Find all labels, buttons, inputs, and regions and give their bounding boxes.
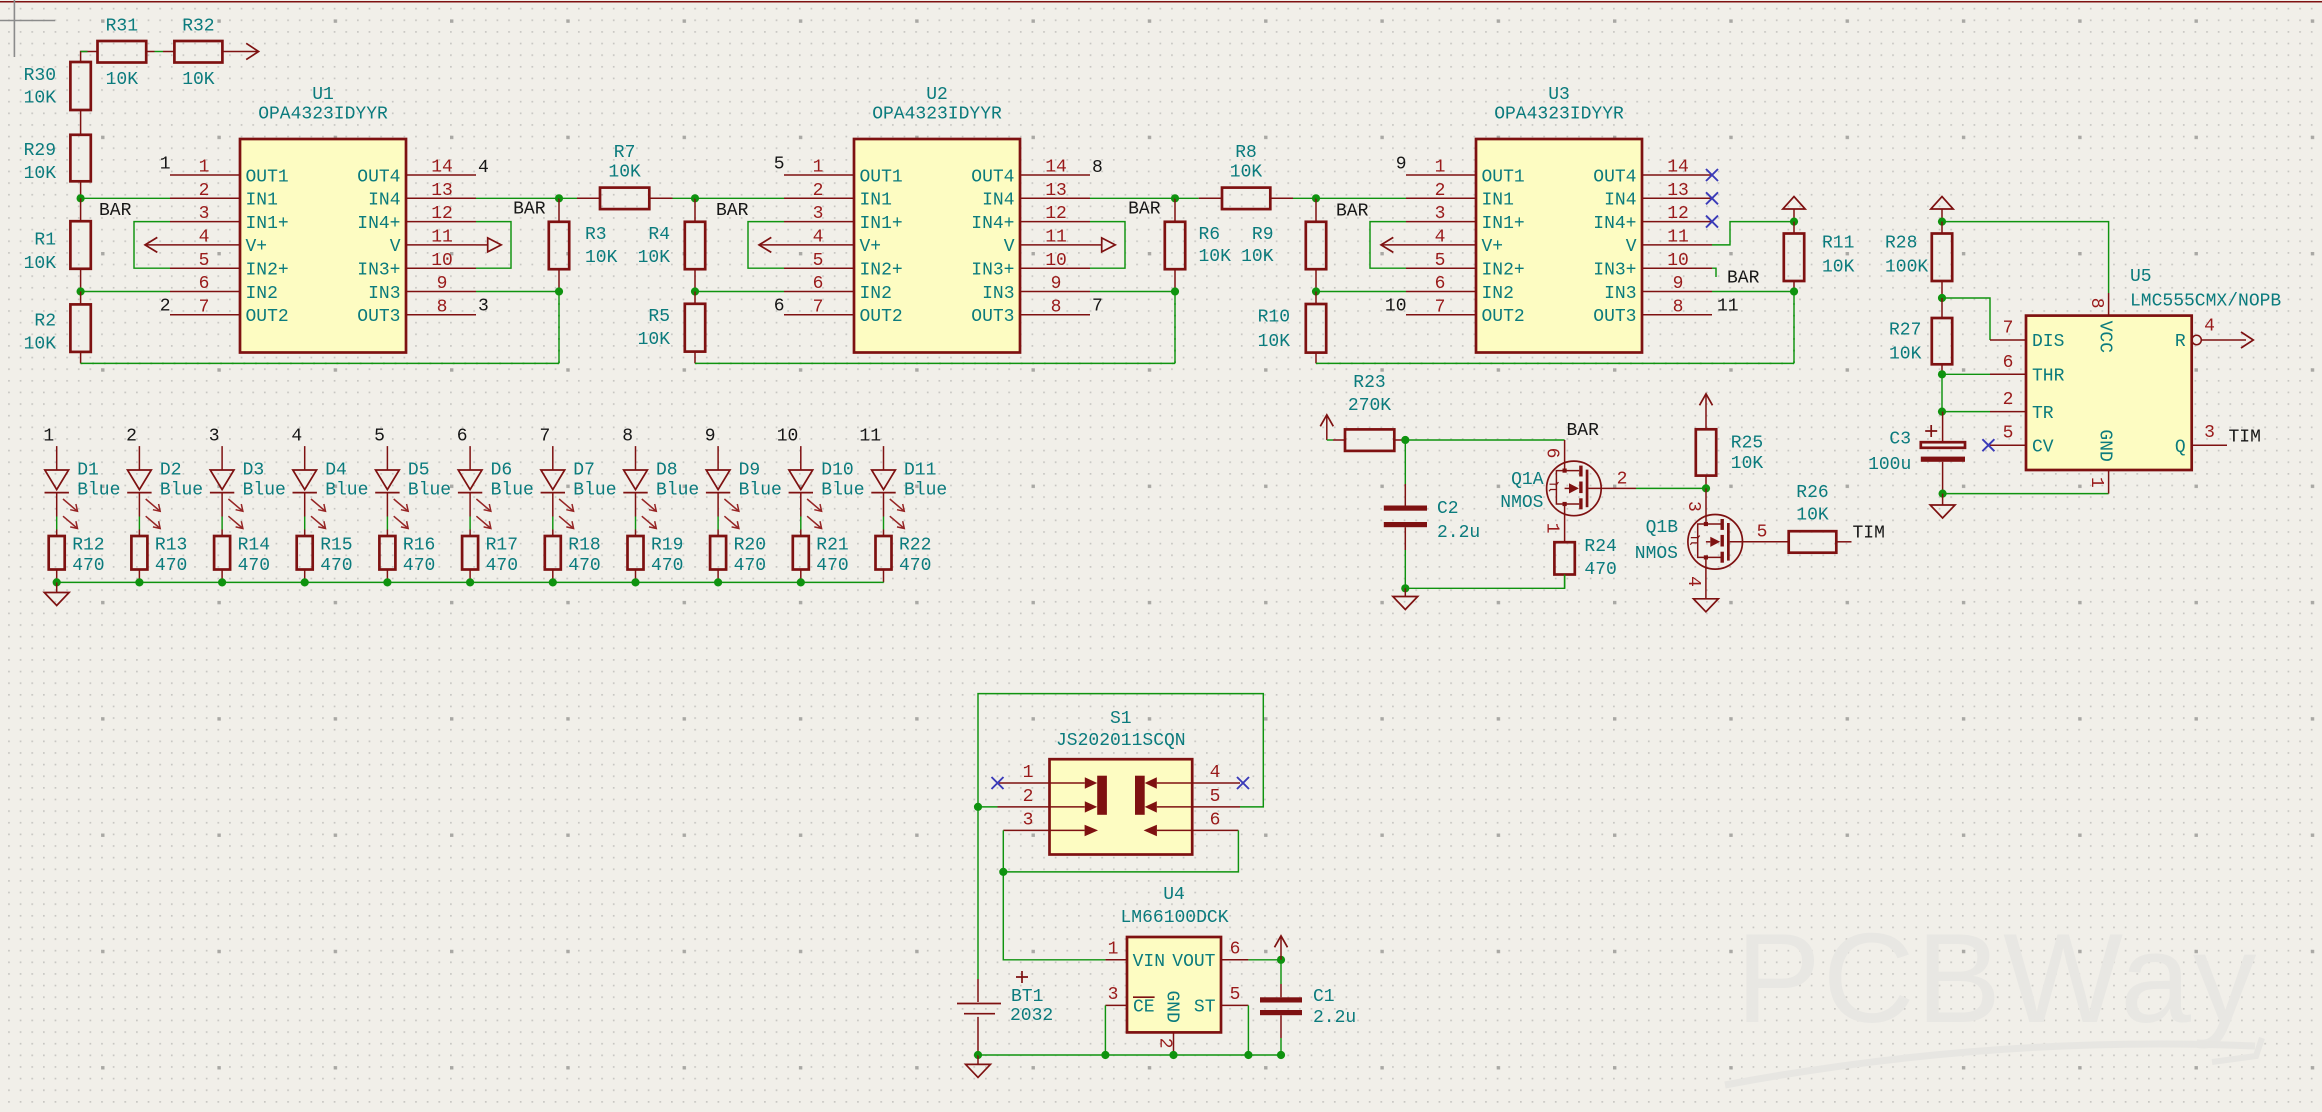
svg-text:5: 5: [1230, 985, 1241, 1005]
svg-text:12: 12: [431, 204, 453, 224]
svg-text:470: 470: [734, 556, 766, 576]
svg-text:R4: R4: [648, 225, 670, 245]
svg-text:11: 11: [859, 427, 881, 447]
svg-text:OUT3: OUT3: [1593, 307, 1636, 327]
svg-text:470: 470: [486, 556, 518, 576]
svg-text:6: 6: [1542, 448, 1562, 459]
svg-text:10K: 10K: [1199, 247, 1232, 267]
svg-text:R22: R22: [899, 535, 931, 555]
led D7: [541, 460, 617, 528]
junction: [1171, 194, 1179, 202]
junction: [797, 578, 805, 586]
battery BT1: [957, 807, 1053, 1055]
svg-text:10K: 10K: [1241, 247, 1274, 267]
wire: [800, 446, 802, 470]
svg-text:13: 13: [1667, 181, 1689, 201]
svg-text:D7: D7: [573, 460, 595, 480]
svg-text:10K: 10K: [638, 248, 671, 268]
svg-text:IN1+: IN1+: [1482, 214, 1525, 234]
junction: [1938, 294, 1946, 302]
wire: [1636, 487, 1706, 489]
wire: [469, 517, 471, 530]
power arrow V+: [759, 244, 784, 246]
svg-text:3: 3: [1023, 810, 1034, 830]
power arrow V: [1090, 244, 1102, 246]
svg-text:R20: R20: [734, 535, 766, 555]
ic U4: [1105, 885, 1248, 1055]
svg-text:BAR: BAR: [1727, 269, 1760, 289]
svg-text:1: 1: [1108, 940, 1119, 960]
svg-text:IN1: IN1: [246, 191, 278, 211]
wire: [476, 291, 559, 293]
svg-text:D9: D9: [739, 460, 761, 480]
wire: [883, 446, 885, 470]
svg-text:R6: R6: [1199, 225, 1221, 245]
svg-text:7: 7: [2003, 319, 2014, 339]
svg-text:10: 10: [1385, 296, 1407, 316]
svg-text:3: 3: [478, 296, 489, 316]
resistor R3: [549, 198, 618, 291]
svg-text:VOUT: VOUT: [1172, 952, 1215, 972]
svg-text:10K: 10K: [24, 164, 57, 184]
op-amp U2: [784, 85, 1090, 353]
svg-text:1: 1: [813, 158, 824, 178]
led D4: [293, 460, 369, 528]
resistor R17: [462, 530, 518, 583]
junction: [1702, 484, 1710, 492]
junction: [1277, 1051, 1285, 1059]
junction: [549, 578, 557, 586]
svg-text:S1: S1: [1110, 709, 1132, 729]
led D1: [45, 460, 121, 528]
resistor R15: [297, 530, 353, 583]
led D9: [706, 460, 782, 528]
junction: [1939, 490, 1947, 498]
svg-text:7: 7: [1435, 297, 1446, 317]
svg-text:V+: V+: [860, 237, 882, 257]
svg-text:8: 8: [437, 297, 448, 317]
svg-text:OPA4323IDYYR: OPA4323IDYYR: [1494, 105, 1624, 125]
svg-text:270K: 270K: [1348, 396, 1391, 416]
svg-text:8: 8: [1051, 297, 1062, 317]
wire DIS: [1942, 298, 1990, 340]
no-connect pin 13: [1706, 192, 1718, 204]
svg-text:OUT2: OUT2: [1482, 307, 1525, 327]
switch S1: [998, 709, 1241, 855]
svg-text:13: 13: [431, 181, 453, 201]
led D3: [210, 460, 286, 528]
svg-text:THR: THR: [2032, 367, 2065, 387]
svg-text:13: 13: [1045, 181, 1067, 201]
svg-text:VCC: VCC: [2095, 321, 2115, 354]
junction: [1401, 436, 1409, 444]
svg-text:4: 4: [1210, 763, 1221, 783]
svg-text:Q1B: Q1B: [1646, 518, 1679, 538]
svg-text:8: 8: [2086, 298, 2106, 309]
junction: [1277, 956, 1285, 964]
svg-text:3: 3: [1435, 204, 1446, 224]
svg-text:470: 470: [816, 556, 848, 576]
wire: [1247, 1005, 1249, 1055]
svg-text:2: 2: [813, 181, 824, 201]
resistor R29: [24, 135, 91, 199]
svg-text:IN3+: IN3+: [357, 261, 400, 281]
svg-text:LM66100DCK: LM66100DCK: [1120, 908, 1228, 928]
svg-text:R8: R8: [1235, 143, 1257, 163]
svg-text:JS202011SCQN: JS202011SCQN: [1056, 731, 1186, 751]
svg-text:R19: R19: [651, 535, 683, 555]
svg-text:100u: 100u: [1868, 455, 1911, 475]
svg-text:IN4: IN4: [368, 191, 400, 211]
junction: [77, 287, 85, 295]
resistor R11: [1784, 222, 1855, 292]
svg-text:ST: ST: [1194, 998, 1216, 1018]
svg-text:7: 7: [1092, 296, 1103, 316]
svg-text:11: 11: [431, 228, 453, 248]
svg-text:R14: R14: [238, 535, 270, 555]
junction: [1401, 584, 1409, 592]
led D8: [623, 460, 699, 528]
junction: [691, 194, 699, 202]
svg-text:D1: D1: [77, 460, 99, 480]
svg-text:2.2u: 2.2u: [1313, 1008, 1356, 1028]
junction: [53, 578, 61, 586]
svg-text:470: 470: [568, 556, 600, 576]
svg-text:470: 470: [72, 556, 104, 576]
svg-text:U5: U5: [2130, 267, 2152, 287]
svg-text:10K: 10K: [1258, 332, 1291, 352]
svg-text:IN1: IN1: [860, 191, 892, 211]
svg-text:Blue: Blue: [77, 481, 120, 501]
junction: [1790, 287, 1798, 295]
svg-text:R29: R29: [24, 141, 56, 161]
resistor R2: [24, 292, 91, 364]
ic U5: [1990, 267, 2281, 494]
ground: [1694, 599, 1719, 612]
led D6: [458, 460, 534, 528]
wire: [1003, 872, 1105, 960]
junction: [631, 578, 639, 586]
wire: [1174, 292, 1176, 364]
svg-text:2: 2: [126, 427, 137, 447]
wire feedback loop left: [748, 222, 784, 269]
wire: [304, 446, 306, 470]
svg-text:10K: 10K: [585, 248, 618, 268]
capacitor C2: [1384, 484, 1480, 550]
output arrow: [222, 51, 257, 53]
junction: [466, 578, 474, 586]
ground: [977, 1055, 979, 1064]
wire: [552, 517, 554, 530]
junction: [1938, 408, 1946, 416]
power arrow V: [476, 244, 488, 246]
svg-text:2: 2: [160, 296, 171, 316]
junction: [1171, 287, 1179, 295]
power arrow: [1326, 415, 1328, 440]
svg-text:R5: R5: [648, 307, 670, 327]
svg-text:470: 470: [238, 556, 270, 576]
transistor Q1B: [1635, 488, 1789, 598]
svg-text:CV: CV: [2032, 437, 2054, 457]
resistor R24: [1554, 537, 1616, 588]
svg-text:R7: R7: [614, 143, 636, 163]
svg-text:D8: D8: [656, 460, 678, 480]
junction: [1244, 1051, 1252, 1059]
svg-text:R9: R9: [1252, 225, 1274, 245]
svg-text:5: 5: [199, 251, 210, 271]
svg-text:4: 4: [478, 158, 489, 178]
svg-text:12: 12: [1045, 204, 1067, 224]
svg-text:D2: D2: [160, 460, 182, 480]
resistor R4: [638, 198, 706, 291]
resistor R13: [131, 530, 187, 583]
wire: [978, 806, 998, 808]
svg-text:IN3: IN3: [982, 284, 1014, 304]
svg-text:IN4+: IN4+: [357, 214, 400, 234]
svg-text:R3: R3: [585, 225, 607, 245]
svg-text:R1: R1: [34, 231, 56, 251]
svg-text:BAR: BAR: [1567, 421, 1600, 441]
wire: [695, 291, 784, 293]
svg-text:TIM: TIM: [2229, 427, 2261, 447]
ground: [1942, 494, 1944, 505]
wire: [1003, 830, 1238, 872]
resistor R26: [1789, 483, 1852, 553]
wire: [1405, 575, 1564, 589]
svg-text:2: 2: [1023, 787, 1034, 807]
svg-text:11: 11: [1667, 228, 1689, 248]
svg-text:R18: R18: [568, 535, 600, 555]
output arrow R: [2241, 332, 2253, 348]
wire bus: [1316, 362, 1794, 364]
svg-text:OUT1: OUT1: [246, 167, 289, 187]
op-amp U3: [1406, 85, 1712, 353]
svg-text:2: 2: [1617, 470, 1628, 490]
wire: [1002, 830, 1004, 872]
svg-text:Blue: Blue: [325, 481, 368, 501]
junction: [974, 1051, 982, 1059]
junction: [555, 287, 563, 295]
svg-text:BAR: BAR: [716, 201, 749, 221]
svg-text:NMOS: NMOS: [1500, 493, 1543, 513]
svg-text:DIS: DIS: [2032, 332, 2064, 352]
svg-text:IN3: IN3: [368, 284, 400, 304]
wire feedback loop right: [476, 222, 511, 269]
wire: [695, 197, 784, 199]
svg-text:OUT1: OUT1: [860, 167, 903, 187]
svg-text:3: 3: [2204, 423, 2215, 443]
junction: [974, 803, 982, 811]
svg-text:V: V: [1004, 237, 1015, 257]
wire feedback loop left: [134, 222, 170, 269]
svg-text:R31: R31: [106, 17, 138, 37]
svg-text:U1: U1: [312, 85, 334, 105]
svg-text:5: 5: [774, 155, 785, 175]
svg-text:2: 2: [199, 181, 210, 201]
resistor R21: [793, 530, 849, 583]
ground: [56, 582, 58, 592]
wire: [883, 517, 885, 530]
svg-text:R25: R25: [1731, 434, 1763, 454]
wire: [717, 446, 719, 470]
svg-text:Blue: Blue: [904, 481, 947, 501]
svg-text:IN2: IN2: [246, 284, 278, 304]
wire VCC: [1942, 222, 2109, 293]
svg-text:2032: 2032: [1010, 1006, 1053, 1026]
svg-text:V+: V+: [1482, 237, 1504, 257]
junction: [1938, 218, 1946, 226]
svg-text:OPA4323IDYYR: OPA4323IDYYR: [258, 105, 388, 125]
svg-text:6: 6: [457, 427, 468, 447]
svg-text:TR: TR: [2032, 404, 2054, 424]
wire: [717, 517, 719, 530]
svg-text:PCBWay: PCBWay: [1736, 907, 2258, 1049]
wire: [1712, 291, 1794, 293]
svg-text:IN2+: IN2+: [860, 261, 903, 281]
svg-text:V: V: [390, 237, 401, 257]
svg-text:3: 3: [813, 204, 824, 224]
svg-text:14: 14: [1667, 158, 1689, 178]
svg-text:5: 5: [374, 427, 385, 447]
junction: [1938, 370, 1946, 378]
svg-text:10: 10: [1045, 251, 1067, 271]
resistor R20: [710, 530, 766, 583]
junction: [77, 194, 85, 202]
svg-text:7: 7: [539, 427, 550, 447]
svg-text:GND: GND: [2095, 429, 2115, 461]
power arrow V+: [145, 244, 170, 246]
svg-text:OUT3: OUT3: [357, 307, 400, 327]
wire: [635, 517, 637, 530]
wire bus: [81, 362, 559, 364]
power symbol: [1941, 209, 1943, 222]
led D10: [789, 460, 865, 528]
svg-text:5: 5: [1435, 251, 1446, 271]
svg-text:10K: 10K: [1230, 163, 1263, 183]
wire bus: [57, 581, 884, 583]
svg-text:3: 3: [1108, 985, 1119, 1005]
svg-text:D5: D5: [408, 460, 430, 480]
resistor R9: [1241, 198, 1326, 291]
svg-text:OPA4323IDYYR: OPA4323IDYYR: [872, 105, 1002, 125]
wire: [1090, 197, 1175, 199]
svg-text:IN3: IN3: [1604, 284, 1636, 304]
resistor R30: [24, 62, 91, 135]
svg-text:IN3+: IN3+: [971, 261, 1014, 281]
PCBWay watermark: [1725, 907, 2262, 1085]
svg-text:R12: R12: [72, 535, 104, 555]
svg-text:C3: C3: [1889, 430, 1911, 450]
svg-text:R15: R15: [320, 535, 352, 555]
svg-text:R16: R16: [403, 535, 435, 555]
resistor R31: [88, 17, 155, 91]
svg-text:8: 8: [1092, 158, 1103, 178]
svg-text:8: 8: [622, 427, 633, 447]
resistor R1: [24, 198, 91, 291]
svg-text:3: 3: [199, 204, 210, 224]
wire bus: [695, 362, 1175, 364]
svg-text:R26: R26: [1796, 483, 1828, 503]
sheet border: [0, 1, 2322, 3]
svg-text:OUT3: OUT3: [971, 307, 1014, 327]
ground: [1404, 588, 1406, 596]
svg-text:C2: C2: [1437, 499, 1459, 519]
svg-text:Blue: Blue: [573, 481, 616, 501]
svg-text:4: 4: [291, 427, 302, 447]
svg-text:14: 14: [431, 158, 453, 178]
wire THR: [1942, 373, 1990, 375]
wire: [1404, 550, 1406, 588]
svg-text:R24: R24: [1584, 537, 1616, 557]
sheet origin crosshair: [0, 0, 55, 57]
no-connect pin 12: [1706, 216, 1718, 228]
svg-text:V+: V+: [246, 237, 268, 257]
svg-text:IN4: IN4: [982, 191, 1014, 211]
svg-text:10K: 10K: [608, 163, 641, 183]
svg-text:VIN: VIN: [1133, 952, 1165, 972]
svg-text:Blue: Blue: [160, 481, 203, 501]
svg-text:R27: R27: [1889, 320, 1921, 340]
wire: [138, 446, 140, 470]
wire: [56, 517, 58, 530]
wire feedback loop right: [1090, 222, 1125, 269]
resistor R5: [638, 292, 706, 364]
junction: [1312, 194, 1320, 202]
svg-text:10K: 10K: [106, 70, 139, 90]
svg-text:11: 11: [1717, 296, 1739, 316]
svg-text:IN1: IN1: [1482, 191, 1514, 211]
svg-text:11: 11: [1045, 228, 1067, 248]
svg-text:CE: CE: [1133, 998, 1155, 1018]
svg-text:U2: U2: [926, 85, 948, 105]
svg-text:6: 6: [774, 296, 785, 316]
wire TR: [1942, 411, 1990, 413]
wire: [800, 517, 802, 530]
transistor Q1A: [1500, 440, 1636, 542]
svg-text:9: 9: [1396, 155, 1407, 175]
no-connect pin 4: [1237, 777, 1249, 789]
resistor R32: [155, 17, 223, 91]
resistor R8: [1175, 143, 1316, 209]
svg-text:R11: R11: [1822, 234, 1854, 254]
svg-text:1: 1: [43, 427, 54, 447]
svg-text:Blue: Blue: [491, 481, 534, 501]
svg-text:OUT1: OUT1: [1482, 167, 1525, 187]
wire: [1104, 1005, 1106, 1055]
svg-text:1: 1: [199, 158, 210, 178]
wire: [558, 292, 560, 364]
svg-text:LMC555CMX/NOPB: LMC555CMX/NOPB: [2130, 292, 2281, 312]
svg-text:4: 4: [813, 228, 824, 248]
svg-text:470: 470: [403, 556, 435, 576]
svg-text:OUT4: OUT4: [1593, 167, 1636, 187]
wire: [386, 517, 388, 530]
svg-text:14: 14: [1045, 158, 1067, 178]
svg-text:OUT4: OUT4: [971, 167, 1014, 187]
svg-text:6: 6: [1435, 274, 1446, 294]
svg-text:R23: R23: [1353, 373, 1385, 393]
svg-text:12: 12: [1667, 204, 1689, 224]
wire: [552, 446, 554, 470]
resistor R23: [1327, 373, 1406, 451]
power arrow: [1280, 936, 1282, 960]
svg-text:10K: 10K: [1822, 258, 1855, 278]
wire: [221, 446, 223, 470]
resistor R7: [559, 143, 695, 209]
power arrow V+: [1381, 244, 1406, 246]
wire GND net: [1943, 493, 2109, 495]
svg-text:NMOS: NMOS: [1635, 544, 1678, 564]
